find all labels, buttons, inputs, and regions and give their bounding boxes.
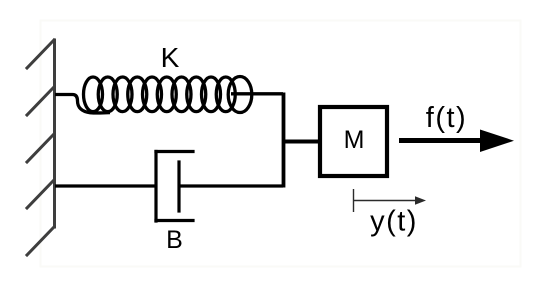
- wire damper input: [55, 184, 156, 187]
- wall: [27, 40, 55, 255]
- svg-text:M: M: [344, 126, 365, 154]
- damper B: [156, 152, 193, 222]
- faint frame: [41, 21, 521, 267]
- svg-text:y(t): y(t): [370, 206, 418, 238]
- wire spring lead-out: [231, 92, 283, 95]
- wire damper rod: [179, 184, 283, 187]
- wire stub to mass: [282, 140, 318, 144]
- spring K: [55, 77, 283, 113]
- force arrow f(t): [399, 130, 514, 153]
- mass M box: [320, 107, 387, 176]
- wire spring lead-in: [55, 95, 110, 113]
- svg-text:K: K: [161, 42, 180, 73]
- svg-text:f(t): f(t): [426, 102, 467, 134]
- displacement marker y(t): [354, 189, 421, 212]
- svg-text:B: B: [166, 226, 183, 254]
- wire right vertical junction: [282, 93, 286, 188]
